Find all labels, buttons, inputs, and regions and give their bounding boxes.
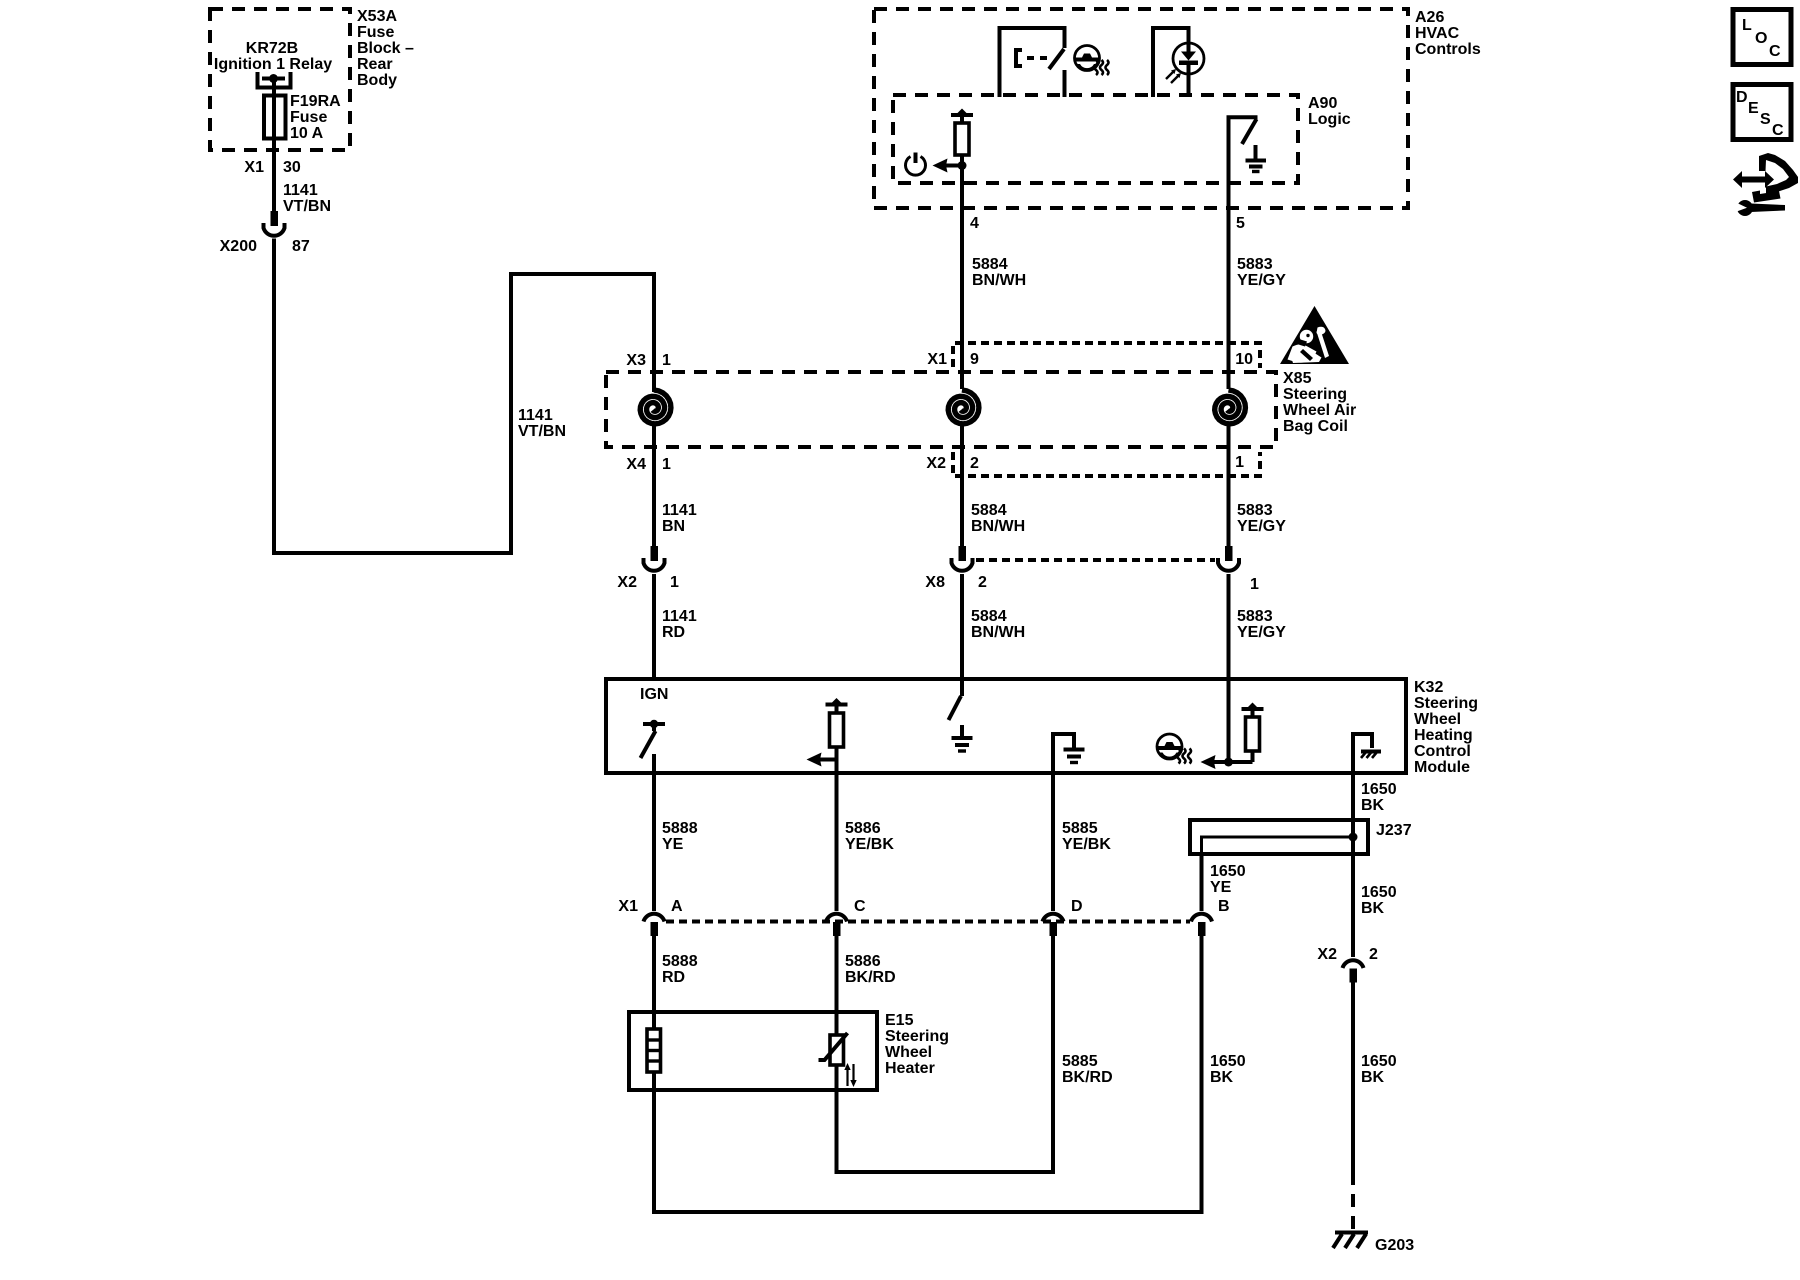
resistor in A90 (T-bar supply + body) xyxy=(951,109,973,209)
svg-text:BK/RD: BK/RD xyxy=(845,969,896,986)
inline connector X8 pin 2 + dotted connector line xyxy=(925,546,1215,591)
thermistor in E15 (variable resistor + flow arrows) xyxy=(819,1012,857,1090)
wire relay to fuse xyxy=(272,78,276,96)
svg-text:Fuse: Fuse xyxy=(290,109,327,126)
svg-text:1650: 1650 xyxy=(1210,1053,1246,1070)
svg-text:Steering: Steering xyxy=(1414,695,1478,712)
svg-text:Heater: Heater xyxy=(885,1060,935,1077)
svg-text:K32: K32 xyxy=(1414,679,1443,696)
coil 1 (steering wheel air bag coil winding) xyxy=(640,274,671,455)
svg-text:1: 1 xyxy=(662,352,671,369)
steering wheel heating control module K32 (solid box + label) xyxy=(606,679,1478,776)
svg-text:Steering: Steering xyxy=(1283,386,1347,403)
inline connector X1 pin B xyxy=(1191,898,1230,936)
ignition switch in K32 (IGN input) xyxy=(640,686,668,773)
wire K32 to X1/D, label 5885 YE/BK xyxy=(1053,773,1111,911)
connector X1 row boundary (dotted) xyxy=(666,920,1190,924)
wire fuse to connector X200, pins X1/30, label 1141 VT/BN xyxy=(244,139,331,215)
svg-text:KR72B: KR72B xyxy=(246,40,298,57)
wire K32 to X1/C, label 5886 YE/BK xyxy=(837,773,895,911)
svg-text:5884: 5884 xyxy=(971,502,1007,519)
resistor with output arrow in K32 (5886 driver) xyxy=(807,698,848,773)
wire X4/1 to X2/1, label 1141 BN xyxy=(654,455,697,546)
svg-text:BK: BK xyxy=(1210,1069,1234,1086)
steering wheel heater E15 (solid box + label) xyxy=(629,1012,949,1090)
svg-text:5888: 5888 xyxy=(662,820,698,837)
connector X200 pin 87 (inline connector) xyxy=(220,211,310,255)
relay KR72B (contact symbol + label) xyxy=(214,40,332,88)
svg-text:5888: 5888 xyxy=(662,953,698,970)
svg-text:YE: YE xyxy=(662,836,684,853)
svg-text:1650: 1650 xyxy=(1361,781,1397,798)
inline connector X1 pin D xyxy=(1043,898,1083,936)
heated steering wheel switch in A26 (bracket + actuator + switch blade) xyxy=(1000,28,1065,97)
svg-text:1141: 1141 xyxy=(662,608,697,625)
svg-text:IGN: IGN xyxy=(640,686,668,703)
svg-text:5885: 5885 xyxy=(1062,820,1098,837)
svg-text:YE/GY: YE/GY xyxy=(1237,624,1286,641)
svg-text:X4: X4 xyxy=(626,456,646,473)
svg-text:X1: X1 xyxy=(618,898,638,915)
svg-text:RD: RD xyxy=(662,624,685,641)
svg-text:30: 30 xyxy=(283,159,301,176)
svg-text:5883: 5883 xyxy=(1237,256,1273,273)
svg-text:1: 1 xyxy=(1250,576,1259,593)
svg-text:1650: 1650 xyxy=(1210,863,1246,880)
svg-text:X8: X8 xyxy=(925,574,945,591)
svg-text:X3: X3 xyxy=(626,352,646,369)
svg-text:E: E xyxy=(1748,100,1759,117)
nav icon DESC xyxy=(1733,85,1791,140)
wire X1/C to E15, label 5886 BK/RD xyxy=(837,936,896,1012)
resistor in K32 (indicator pull-up) xyxy=(1229,703,1264,763)
svg-text:2: 2 xyxy=(970,455,979,472)
wire A26 pin 4 to X1 pin 9, label 5884 BN/WH xyxy=(962,208,1026,389)
wire connector 1 to K32, label 5883 YE/GY xyxy=(1229,574,1287,679)
svg-text:1141: 1141 xyxy=(518,407,553,424)
svg-text:5: 5 xyxy=(1236,215,1245,232)
chassis ground in K32 (1650 output) xyxy=(1353,734,1381,773)
svg-text:5884: 5884 xyxy=(971,608,1007,625)
svg-text:VT/BN: VT/BN xyxy=(283,198,331,215)
svg-text:BN/WH: BN/WH xyxy=(971,518,1025,535)
wire A26 pin 5 to X1 pin 10, label 5883 YE/GY xyxy=(1229,208,1287,389)
nav icon jump (double arrow + bent arrow + wrench) xyxy=(1733,153,1798,216)
wire E15 heater to X1/B (return), bottom route xyxy=(654,936,1202,1212)
svg-text:YE/GY: YE/GY xyxy=(1237,272,1286,289)
svg-text:C: C xyxy=(1772,122,1784,139)
svg-text:10: 10 xyxy=(1235,351,1253,368)
svg-text:Logic: Logic xyxy=(1308,111,1351,128)
svg-text:Heating: Heating xyxy=(1414,727,1473,744)
wire K32 to X1/A, label 5888 YE xyxy=(654,773,698,911)
svg-text:Module: Module xyxy=(1414,759,1470,776)
svg-text:BN/WH: BN/WH xyxy=(972,272,1026,289)
air bag coil X85 (dashed enclosure + label) xyxy=(606,370,1356,447)
svg-text:Control: Control xyxy=(1414,743,1471,760)
svg-text:4: 4 xyxy=(970,215,979,232)
svg-text:YE/BK: YE/BK xyxy=(845,836,894,853)
ambient light sensor LED in A26 (bracket + diode circle + arrows) xyxy=(1153,28,1204,97)
svg-text:1141: 1141 xyxy=(662,502,697,519)
fuse F19RA 10A (symbol + label) xyxy=(264,93,341,142)
svg-text:Controls: Controls xyxy=(1415,41,1481,58)
svg-text:1: 1 xyxy=(670,574,679,591)
svg-text:B: B xyxy=(1218,898,1230,915)
svg-text:X200: X200 xyxy=(220,238,257,255)
svg-text:5883: 5883 xyxy=(1237,502,1273,519)
switch to ground in K32 (5884 input) xyxy=(949,679,973,751)
heated steering wheel indicator icon in A26 xyxy=(1075,46,1109,76)
switch in A90 (right side) xyxy=(1229,117,1258,208)
svg-text:X1: X1 xyxy=(244,159,264,176)
svg-text:BK: BK xyxy=(1361,1069,1385,1086)
inline connector X2 pin 2 (right column) xyxy=(1317,946,1378,983)
svg-text:1: 1 xyxy=(1235,454,1244,471)
svg-text:X53A: X53A xyxy=(357,8,397,25)
svg-text:J237: J237 xyxy=(1376,822,1412,839)
svg-text:Wheel: Wheel xyxy=(885,1044,932,1061)
wire X1/A to E15, label 5888 RD xyxy=(654,936,698,1012)
svg-text:Block –: Block – xyxy=(357,40,414,57)
svg-text:L: L xyxy=(1742,17,1752,34)
svg-text:X1: X1 xyxy=(927,351,947,368)
fuse block X53A (dashed enclosure + label) xyxy=(210,8,414,150)
svg-text:D: D xyxy=(1071,898,1083,915)
svg-text:Wheel Air: Wheel Air xyxy=(1283,402,1356,419)
svg-text:X85: X85 xyxy=(1283,370,1312,387)
svg-text:Rear: Rear xyxy=(357,56,393,73)
connector X1 boundary (dotted, coil top side) + pins xyxy=(626,343,1260,369)
svg-text:O: O xyxy=(1755,30,1767,47)
wire X2/2 to G203, label 1650 BK, dashed tail xyxy=(1353,983,1397,1230)
power on icon in A90 xyxy=(906,153,926,176)
svg-text:Fuse: Fuse xyxy=(357,24,394,41)
label 1650 BK (B column) xyxy=(1210,1053,1246,1086)
svg-text:C: C xyxy=(854,898,866,915)
svg-text:Bag Coil: Bag Coil xyxy=(1283,418,1348,435)
svg-text:HVAC: HVAC xyxy=(1415,25,1460,42)
indicator drive arrow + junction in K32 (5883) xyxy=(1201,679,1234,769)
svg-text:10 A: 10 A xyxy=(290,125,324,142)
svg-text:1650: 1650 xyxy=(1361,1053,1397,1070)
svg-text:87: 87 xyxy=(292,238,310,255)
wire K32 to J237, label 1650 BK xyxy=(1353,773,1397,820)
svg-text:BK/RD: BK/RD xyxy=(1062,1069,1113,1086)
svg-text:5884: 5884 xyxy=(972,256,1008,273)
label 5885 BK/RD (D column) xyxy=(1062,1053,1113,1086)
svg-text:9: 9 xyxy=(970,351,979,368)
svg-text:F19RA: F19RA xyxy=(290,93,341,110)
nav icon LOC xyxy=(1733,10,1791,65)
svg-text:2: 2 xyxy=(978,574,987,591)
svg-text:X2: X2 xyxy=(617,574,637,591)
inline connector pin 1 (right column) xyxy=(1218,546,1259,593)
connector X2 boundary (dotted, coil bottom side) + pins xyxy=(626,452,1260,476)
inline connector X1 pin A xyxy=(618,898,683,936)
svg-text:VT/BN: VT/BN xyxy=(518,423,566,440)
svg-text:YE/GY: YE/GY xyxy=(1237,518,1286,535)
svg-text:1: 1 xyxy=(662,456,671,473)
airbag caution triangle xyxy=(1280,306,1349,364)
logic block A90 (dashed enclosure + label) xyxy=(893,95,1351,183)
svg-text:A: A xyxy=(671,898,683,915)
coil 2 xyxy=(948,390,979,455)
ground G203 (chassis ground symbol + label) xyxy=(1333,1233,1414,1255)
svg-text:Ignition 1 Relay: Ignition 1 Relay xyxy=(214,56,332,73)
svg-text:5886: 5886 xyxy=(845,953,881,970)
svg-text:5886: 5886 xyxy=(845,820,881,837)
svg-text:S: S xyxy=(1760,111,1771,128)
wire X2/1 to K32 IGN, label 1141 RD xyxy=(654,574,697,679)
wire J237 to X2/2, label 1650 BK xyxy=(1353,854,1397,957)
svg-text:Steering: Steering xyxy=(885,1028,949,1045)
svg-text:2: 2 xyxy=(1369,946,1378,963)
svg-text:BN: BN xyxy=(662,518,685,535)
heater element in E15 xyxy=(647,1012,661,1090)
ground in A90 xyxy=(1246,145,1267,172)
wire coil pin 1 down, label 5883 YE/GY xyxy=(1229,455,1287,546)
heated wheel indicator icon in K32 xyxy=(1157,734,1191,764)
svg-text:5883: 5883 xyxy=(1237,608,1273,625)
svg-text:A26: A26 xyxy=(1415,9,1444,26)
ground in K32 (5885 return) xyxy=(1053,734,1085,773)
svg-text:BN/WH: BN/WH xyxy=(971,624,1025,641)
wire X2/2 to X8/2, label 5884 BN/WH xyxy=(962,455,1025,546)
svg-text:X2: X2 xyxy=(926,455,946,472)
HVAC controls module A26 (dashed enclosure + label) xyxy=(874,9,1481,208)
wire X200/87 to X85 X3 pin 1 (routed), label 1141 VT/BN xyxy=(274,239,654,554)
coil 3 xyxy=(1215,390,1246,455)
wire J237 to X1/B, label 1650 YE, pin B xyxy=(1202,854,1246,911)
svg-text:1650: 1650 xyxy=(1361,884,1397,901)
svg-text:D: D xyxy=(1736,89,1748,106)
signal arrow in A90 (junction dot + arrow to power icon) xyxy=(933,159,967,173)
svg-text:5885: 5885 xyxy=(1062,1053,1098,1070)
svg-text:Body: Body xyxy=(357,72,397,89)
wire X8/2 to K32, label 5884 BN/WH xyxy=(962,574,1025,679)
svg-text:A90: A90 xyxy=(1308,95,1337,112)
svg-text:1141: 1141 xyxy=(283,182,318,199)
inline connector X2 pin 1 xyxy=(617,546,679,591)
svg-text:YE/BK: YE/BK xyxy=(1062,836,1111,853)
svg-text:G203: G203 xyxy=(1375,1237,1414,1254)
svg-text:C: C xyxy=(1769,43,1781,60)
svg-text:BK: BK xyxy=(1361,797,1385,814)
svg-text:YE: YE xyxy=(1210,879,1232,896)
svg-text:E15: E15 xyxy=(885,1012,914,1029)
wire E15 thermistor to X1/D, bottom route xyxy=(837,936,1054,1172)
svg-text:Wheel: Wheel xyxy=(1414,711,1461,728)
svg-text:X2: X2 xyxy=(1317,946,1337,963)
svg-text:BK: BK xyxy=(1361,900,1385,917)
splice pack J237 (busbar box + bus + junction dot + label) xyxy=(1190,820,1412,854)
svg-text:RD: RD xyxy=(662,969,685,986)
inline connector X1 pin C xyxy=(826,898,866,936)
